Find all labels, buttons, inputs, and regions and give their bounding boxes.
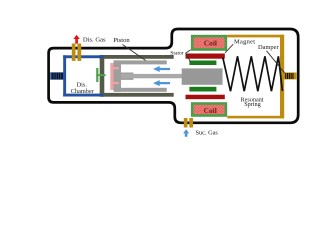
suction valve (pink) on piston face: [110, 63, 113, 90]
left suspension spring (blue bar with black coil teeth): [50, 72, 63, 79]
resonant spring: [223, 56, 283, 91]
magnet bar (bottom, dark red): [186, 95, 225, 100]
stator frame right wall: [280, 35, 284, 119]
svg-text:Suc. Gas: Suc. Gas: [196, 130, 219, 137]
hermetic shell outline: [49, 29, 299, 123]
coil (top): [192, 36, 226, 49]
suction flow blue arrow (upper): [153, 66, 170, 72]
piston rod: [121, 74, 182, 78]
discharge chamber (blue C-shaped border, open right): [63, 55, 103, 96]
cylinder bottom wall: [100, 93, 174, 97]
cylinder top wall: [100, 55, 174, 59]
Suc. Gas blue arrow: [183, 129, 189, 137]
suction flow blue arrow (lower): [153, 80, 170, 86]
stator green bar (top): [189, 61, 216, 66]
svg-text:Damper: Damper: [258, 44, 279, 51]
svg-text:Magnet: Magnet: [234, 39, 255, 46]
suction port (two goldenrod bars): [184, 118, 188, 128]
Dis. Gas red arrow: [73, 35, 79, 44]
svg-text:Spring: Spring: [244, 101, 261, 108]
piston (gray cup + rod): [114, 60, 167, 91]
stator frame bottom bar: [227, 116, 283, 119]
coil (bottom): [192, 104, 226, 116]
discharge valve (green): [96, 68, 98, 82]
discharge port (two goldenrod bars): [72, 44, 76, 61]
cylinder head / valve plate (dark olive): [100, 55, 105, 97]
svg-text:Chamber: Chamber: [71, 88, 95, 95]
stator green bar (bottom): [189, 87, 216, 92]
magnet bar (top, dark red): [186, 54, 225, 59]
stator frame (goldenrod) top bar: [227, 35, 283, 38]
svg-text:Piston: Piston: [113, 37, 130, 44]
mover block: [182, 68, 223, 84]
damper (golden bar with black coil teeth): [284, 73, 297, 80]
svg-text:Dis. Gas: Dis. Gas: [83, 36, 106, 43]
svg-text:Coil: Coil: [204, 38, 217, 47]
svg-text:Coil: Coil: [204, 106, 217, 115]
svg-text:Stator: Stator: [170, 50, 183, 56]
